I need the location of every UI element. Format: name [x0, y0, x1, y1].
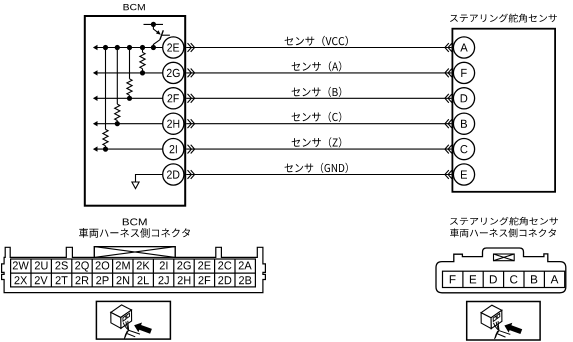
BCM pin 2G — [163, 62, 184, 83]
sensor pin B — [453, 113, 474, 134]
sensor harness connector title (JP) — [450, 217, 558, 225]
sensor pin D — [453, 88, 474, 109]
BCM pin 2F — [163, 88, 184, 109]
junction node on 2E line x=142.5 — [140, 45, 145, 50]
wire sensor Z: BCM 2I to sensor C — [186, 145, 452, 154]
internal wire to pin 2E with arrow — [93, 45, 163, 50]
sensor connector pin row — [443, 271, 565, 287]
junction node on 2E line x=129.5 — [127, 45, 132, 50]
sensor connector view icon frame — [467, 302, 540, 341]
wire label sensor C (JP) — [292, 112, 342, 122]
BCM pin 2I — [163, 139, 184, 160]
BCM pin 2D — [163, 164, 184, 185]
resistor R3 (2E-2H) branch — [115, 48, 120, 127]
ground symbol from pin 2D — [132, 175, 163, 189]
BCM connector housing outline — [2, 247, 266, 293]
sensor pin F — [453, 62, 474, 83]
BCM pin 2H — [163, 113, 184, 134]
resistor R4 (2E-2I) branch — [103, 48, 108, 152]
wire sensor VCC: BCM 2E to sensor A — [186, 43, 452, 52]
internal wire to pin 2F with arrow — [93, 96, 163, 101]
sensor pin A — [453, 37, 474, 58]
BCM connector pin labels row 2 — [15, 276, 252, 284]
wire sensor A: BCM 2G to sensor F — [186, 69, 452, 78]
BCM connector view icon — [111, 305, 152, 339]
label: steering angle sensor (JP) — [450, 14, 557, 23]
wire sensor B: BCM 2F to sensor D — [186, 94, 452, 103]
sensor connector housing outline — [436, 248, 566, 293]
BCM connector lock tab with X — [94, 247, 175, 258]
wire label sensor VCC (JP) — [285, 36, 348, 46]
resistor R1 (2E-2G) branch — [140, 48, 145, 76]
sensor connector view icon — [481, 305, 522, 339]
transistor Q1 supply rail — [144, 22, 164, 27]
sensor harness connector title line2 (JP) — [450, 228, 556, 237]
BCM connector view icon frame — [96, 301, 170, 339]
wire sensor C: BCM 2H to sensor B — [186, 119, 452, 128]
transistor Q1 — [153, 24, 170, 47]
wire label sensor Z (JP) — [292, 137, 342, 147]
BCM module box — [85, 16, 185, 206]
wire sensor GND: BCM 2D to sensor E — [186, 170, 452, 179]
internal wire to pin 2G with arrow — [93, 70, 163, 75]
junction node on 2E line x=117.3 — [115, 45, 120, 50]
BCM pin 2E — [163, 37, 184, 58]
BCM harness connector title line2 (JP) — [79, 228, 190, 238]
BCM connector pin labels row 1 — [13, 261, 252, 271]
sensor pin E — [453, 164, 474, 185]
wire label sensor B (JP) — [292, 87, 342, 97]
internal wire to pin 2H with arrow — [93, 121, 163, 126]
junction node on 2E line x=153.4 — [151, 45, 156, 50]
wire label sensor GND (JP) — [285, 163, 348, 173]
internal wire to pin 2I with arrow — [93, 146, 163, 151]
wire label sensor A (JP) — [292, 61, 342, 71]
steering angle sensor box — [452, 29, 555, 192]
sensor connector lock tab with X — [494, 254, 515, 261]
sensor pin C — [453, 139, 474, 160]
BCM harness connector title — [123, 218, 147, 225]
sensor connector pin letters — [450, 275, 559, 283]
BCM label — [124, 4, 145, 10]
resistor R2 (2E-2F) branch — [127, 48, 132, 101]
BCM connector pin grid — [11, 259, 256, 287]
junction node on 2E line x=105.5 — [103, 45, 108, 50]
